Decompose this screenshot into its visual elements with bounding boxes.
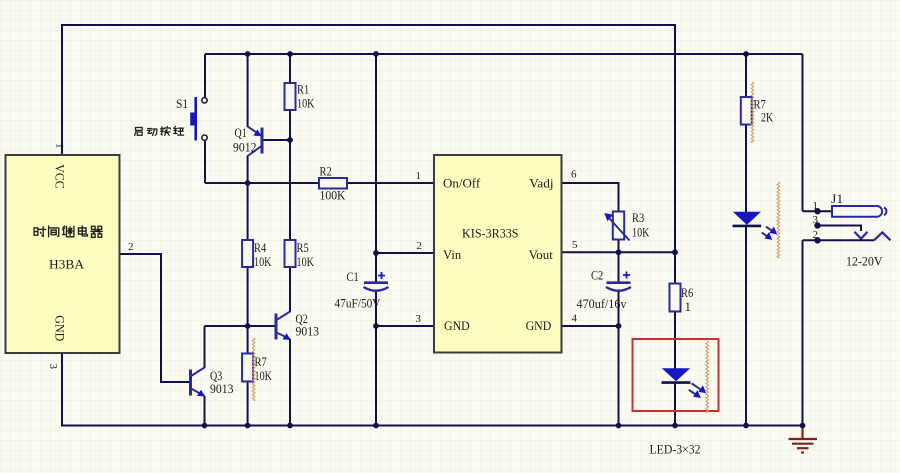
wire R5 bottom to Q2 collector: [289, 267, 291, 312]
wire ground bus: [62, 353, 803, 426]
svg-text:C1: C1: [347, 269, 359, 284]
svg-text:Vout: Vout: [529, 247, 554, 262]
svg-text:S1: S1: [176, 96, 188, 111]
svg-text:2: 2: [813, 229, 819, 241]
svg-text:KIS-3R33S: KIS-3R33S: [462, 225, 519, 240]
node R4 bottom / Q2 base row: [245, 323, 251, 329]
node Vout / R6 top: [672, 249, 678, 255]
wire Vout-to-VCC top bus: [62, 25, 675, 252]
wire Q3 collector row to Q2 base: [205, 325, 276, 327]
node C1 col / ground bus: [373, 423, 379, 429]
wire Q1 base to R1 column: [263, 139, 290, 141]
svg-text:R5: R5: [297, 240, 309, 255]
svg-text:10K: 10K: [297, 254, 315, 269]
switch S1: [190, 97, 207, 141]
node Vout / R3-C2: [616, 249, 622, 255]
node C2 col / ground bus: [616, 423, 622, 429]
wire Q1 collector to node row: [247, 156, 249, 241]
node R1 top / top bus: [287, 51, 293, 57]
svg-text:2: 2: [128, 241, 134, 253]
node Q1 base / R1 bottom: [287, 137, 293, 143]
wire R4 bottom through R7 column: [247, 267, 249, 426]
svg-text:1: 1: [685, 299, 692, 314]
relay module U-H3BA box: [6, 155, 120, 353]
LED D2: [733, 212, 778, 240]
svg-text:1: 1: [416, 170, 422, 182]
svg-text:R2: R2: [320, 164, 332, 179]
resistor R4: [242, 240, 253, 267]
wire S1 bottom to node: [204, 140, 206, 183]
wire LED2 / R7 column: [745, 54, 747, 426]
resistor R7: [242, 354, 253, 382]
node R7 bottom / ground bus: [245, 423, 251, 429]
J1 pin 3 wire and switch arrow: [814, 222, 867, 239]
svg-text:GND: GND: [526, 318, 552, 333]
svg-text:10K: 10K: [255, 368, 273, 383]
node R7-2K top / top bus: [743, 51, 749, 57]
svg-text:R1: R1: [297, 82, 309, 97]
svg-text:4: 4: [572, 313, 578, 325]
svg-text:R4: R4: [254, 240, 267, 255]
connector J1 barrel: [832, 206, 886, 217]
wire GND pin 3: [376, 325, 434, 327]
node Q3 emitter / ground bus: [202, 423, 208, 429]
svg-text:3: 3: [47, 364, 59, 370]
wire R1 column down to R5: [289, 140, 291, 240]
svg-text:On/Off: On/Off: [443, 175, 481, 190]
wire Q1 emitter column: [247, 54, 249, 127]
svg-text:2: 2: [417, 240, 423, 252]
svg-text:9013: 9013: [296, 324, 320, 339]
node Q1 emitter / top bus: [245, 51, 251, 57]
svg-text:GND: GND: [444, 318, 470, 333]
wire Vadj pin 6 to R3: [562, 183, 619, 212]
node GND pin3 / C1 bottom: [373, 323, 379, 329]
node GND pin4 / C2 bottom: [616, 323, 622, 329]
svg-text:LED-3×32: LED-3×32: [650, 442, 701, 457]
svg-text:6: 6: [571, 169, 577, 181]
svg-text:100K: 100K: [320, 187, 347, 202]
resistor R2: [319, 178, 347, 189]
svg-text:9012: 9012: [233, 139, 257, 154]
svg-text:R7: R7: [255, 354, 268, 369]
ground symbol: [789, 426, 818, 453]
svg-text:Vin: Vin: [443, 247, 462, 262]
wire R1 top stub: [289, 54, 291, 83]
wire R2 to On/Off pin 1: [347, 182, 434, 184]
svg-text:Vadj: Vadj: [529, 175, 553, 190]
marker wavy LED D1: [706, 341, 709, 413]
node Vin / C1 top: [373, 250, 379, 256]
resistor R6: [670, 284, 681, 312]
node LED1 col / ground bus: [672, 423, 678, 429]
svg-text:3: 3: [813, 214, 819, 226]
wire R6 column: [674, 252, 676, 425]
node C1 column / top bus: [373, 51, 379, 57]
wire C1 column: [375, 54, 377, 426]
marker wavy R7-10K: [252, 338, 255, 401]
wire relay pin2 to Q3 base: [118, 254, 189, 382]
node S1 / Q1 collector / R2 row: [245, 180, 251, 186]
LED D1 inside red box: [662, 368, 707, 398]
svg-text:Q1: Q1: [235, 125, 247, 140]
wire S1 top stub: [204, 54, 206, 98]
svg-text:1: 1: [813, 200, 819, 212]
wire Vin pin 2: [376, 252, 434, 254]
svg-text:47uF/50V: 47uF/50V: [335, 296, 382, 311]
capacitor C1 47uF/50V: [364, 272, 389, 291]
wire R1 bottom / Q1 base node: [289, 110, 291, 140]
svg-text:10K: 10K: [297, 95, 315, 110]
wire J1 pin1 row: [803, 210, 833, 212]
svg-text:C2: C2: [591, 268, 603, 283]
svg-text:10K: 10K: [254, 254, 272, 269]
wire J1 pin2 down to ground bus: [802, 240, 804, 425]
node J1 return / ground bus corner: [800, 423, 806, 429]
wire GND pin 4: [562, 325, 619, 327]
resistor R1: [285, 83, 296, 110]
wire Q3 emitter down: [204, 396, 206, 426]
wire R3 bottom through C2 column: [618, 240, 620, 426]
transistor Q2 9013: [276, 312, 291, 341]
regulator module KIS-3R33S box: [434, 155, 562, 353]
node LED2 col / ground bus: [743, 423, 749, 429]
transistor Q1 9012: [248, 127, 262, 157]
resistor R7: [741, 97, 752, 125]
svg-text:470uf/16v: 470uf/16v: [577, 296, 627, 311]
svg-text:R6: R6: [681, 285, 694, 300]
wire On/Off row left segment: [205, 182, 319, 184]
svg-text:10K: 10K: [632, 224, 650, 239]
svg-text:J1: J1: [831, 191, 843, 206]
J1 pin 2 wire and chevron contact: [803, 232, 891, 243]
svg-text:GND: GND: [53, 315, 68, 341]
label 启动按钮 (start button): [135, 126, 184, 135]
transistor Q3 9013: [191, 368, 206, 397]
potentiometer R3 10K: [604, 212, 629, 241]
relay text 时间继电器 (time relay): [34, 226, 102, 237]
wire right column to J1 pin1: [802, 54, 804, 211]
svg-text:5: 5: [572, 239, 578, 251]
svg-text:H3BA: H3BA: [49, 257, 85, 272]
svg-text:2K: 2K: [761, 110, 774, 125]
svg-text:VCC: VCC: [53, 164, 68, 189]
wire +V input bus: [205, 53, 803, 55]
resistor R5: [285, 240, 296, 267]
wire Q3 collector up: [204, 326, 206, 368]
marker wavy R7-2K: [751, 82, 754, 143]
svg-text:12-20V: 12-20V: [846, 254, 883, 269]
node Q2 emitter / ground bus: [287, 423, 293, 429]
marker wavy LED D2: [777, 182, 780, 258]
svg-text:3: 3: [416, 313, 422, 325]
capacitor C2 470uf/16v: [606, 272, 631, 291]
svg-text:R3: R3: [632, 210, 644, 225]
svg-text:1: 1: [54, 143, 66, 149]
wire Q2 emitter down: [289, 339, 291, 426]
svg-text:9013: 9013: [210, 381, 234, 396]
wire Vout pin 5 row: [562, 251, 676, 253]
J1 pin 1: [814, 208, 820, 214]
red highlight box: [633, 339, 719, 411]
